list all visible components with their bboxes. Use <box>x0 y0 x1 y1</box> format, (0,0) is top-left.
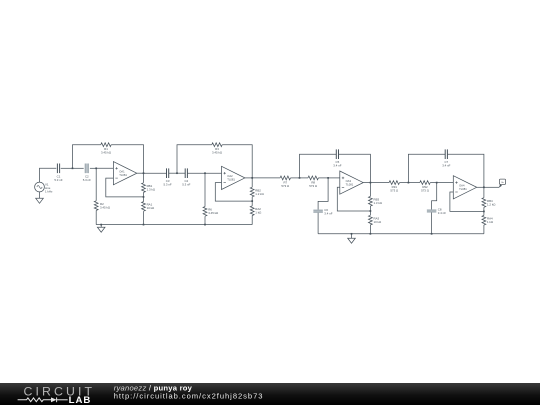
footer url line <box>114 392 264 401</box>
svg-text:3.45 kΩ: 3.45 kΩ <box>208 211 219 215</box>
wire node A up to R1 feedback <box>73 145 101 169</box>
wire R1 to OA1 output column <box>111 145 143 174</box>
svg-text:OA3: OA3 <box>346 179 352 183</box>
op-amp OA2 <box>222 166 245 189</box>
svg-text:1.2 kΩ: 1.2 kΩ <box>487 202 496 206</box>
resistor R3 <box>212 143 223 155</box>
wire RB2 to loop junction <box>251 197 253 201</box>
svg-text:1 kΩ: 1 kΩ <box>487 220 494 224</box>
wire column to RB4 <box>483 187 485 197</box>
wire node F to OA3 + input <box>328 177 340 179</box>
wire C4 to node D <box>187 172 205 174</box>
wire R3 to OA2 output column <box>222 145 252 178</box>
svg-text:3.4 nF: 3.4 nF <box>442 164 450 168</box>
svg-text:3.45 kΩ: 3.45 kΩ <box>212 151 223 155</box>
resistor R91 <box>389 181 399 193</box>
wire node F to C6 <box>318 178 328 210</box>
wire RA4 to ground rail <box>483 225 485 234</box>
wire node D to R6 <box>204 173 206 206</box>
resistor RA1 <box>142 202 155 212</box>
resistor RB3 <box>369 196 383 206</box>
wire OA3 output to column <box>363 182 370 184</box>
node G (junction R91-R92) <box>408 182 410 184</box>
wire OA4 output to flag Vo <box>484 186 499 188</box>
svg-text:5.3 nF: 5.3 nF <box>163 183 171 187</box>
wire C5 to OA3 output column <box>339 154 371 182</box>
svg-text:1 kΩ: 1 kΩ <box>255 211 262 215</box>
node B (junction C2-R2) <box>95 167 97 169</box>
wire OA3 output to R9 <box>370 182 389 184</box>
wire column to RB3 <box>369 183 371 197</box>
node rail-ground junction (right) <box>351 233 353 235</box>
node RB4-RA4 junction <box>483 211 485 213</box>
wire OA1 output to C3 <box>144 172 167 174</box>
ground (right rail) <box>348 234 356 243</box>
node rail-RA1 junction <box>143 224 145 226</box>
capacitor C1 <box>54 164 62 182</box>
wire RB4 to loop junction <box>483 207 485 211</box>
svg-text:3.4 nF: 3.4 nF <box>333 164 341 168</box>
wire node C up to R3 feedback <box>177 145 212 174</box>
wire node G to R92 <box>408 182 419 184</box>
capacitor C6 <box>313 208 332 216</box>
svg-text:TL081: TL081 <box>227 178 235 182</box>
wire column to RB2 <box>251 178 253 187</box>
capacitor C8 <box>427 208 446 216</box>
logo diode <box>51 397 68 402</box>
wire C6 to ground rail <box>317 213 319 234</box>
wire RA1 to ground rail <box>143 211 145 224</box>
wire node E up to C5 feedback <box>300 154 337 178</box>
wire C2 to node B <box>90 167 96 169</box>
wire R91 to node G <box>400 182 409 184</box>
node flag Vo <box>499 179 505 184</box>
wire C3 to node C <box>169 172 177 174</box>
wire R6 to ground rail <box>204 216 206 224</box>
resistor RB1 <box>142 183 156 193</box>
wire V1 to C1 <box>40 168 57 182</box>
svg-text:5.3 nF: 5.3 nF <box>83 178 91 182</box>
resistor RA3 <box>369 215 382 225</box>
node C (junction C3-C4) <box>176 172 178 174</box>
wire C8 to ground rail <box>431 213 433 234</box>
node rail-ground junction <box>100 224 102 226</box>
svg-text:3.45 kΩ: 3.45 kΩ <box>100 205 111 209</box>
svg-text:TL081: TL081 <box>119 173 127 177</box>
wire RA3 to ground rail <box>369 225 371 234</box>
wire RB3 to loop junction <box>369 206 371 211</box>
wire OA4 - input loop <box>450 192 484 211</box>
resistor R7 <box>280 176 290 188</box>
wire OA2 - input loop <box>215 183 252 202</box>
node OA3 output <box>370 182 372 184</box>
wire node D to OA2 + input <box>205 172 222 174</box>
svg-text:1.3 kΩ: 1.3 kΩ <box>374 201 383 205</box>
wire C1 to node A <box>61 167 73 169</box>
resistor R92 <box>420 181 430 193</box>
wire R2 to ground rail <box>95 210 97 224</box>
svg-text:3.4 nF: 3.4 nF <box>324 211 332 215</box>
wire OA1 - input loop <box>106 178 144 197</box>
wire OA2 output to R7 <box>252 177 280 179</box>
ground (below V1) <box>36 192 44 203</box>
flag anchor wedge <box>499 184 502 188</box>
resistor RB2 <box>250 187 264 197</box>
svg-text:http://circuitlab.com/cx2fuhj8: http://circuitlab.com/cx2fuhj82sb73 <box>114 392 264 401</box>
node RB3-RA3 junction <box>370 210 372 212</box>
wire junction to RA3 <box>369 211 371 215</box>
wire C7 to OA4 output column <box>447 154 484 187</box>
wire node E to R8 <box>300 177 309 179</box>
node F (junction R8-C6) <box>327 177 329 179</box>
wire R92 to node H <box>430 182 437 184</box>
node OA4 output <box>483 186 485 188</box>
wire RB1 to loop junction <box>143 192 145 197</box>
svg-text:3.4 nF: 3.4 nF <box>438 211 446 215</box>
resistor RA2 <box>250 206 262 216</box>
svg-text:573 Ω: 573 Ω <box>390 189 399 193</box>
op-amp OA4 <box>453 176 476 199</box>
op-amp OA3 <box>340 171 363 194</box>
node OA2 output <box>251 177 253 179</box>
wire OA4 output to column <box>477 186 484 188</box>
wire OA3 - input loop <box>337 187 370 211</box>
node rail-RA3 junction <box>370 233 372 235</box>
capacitor C5 <box>333 149 341 167</box>
footer author line <box>114 383 193 392</box>
capacitor C3 <box>163 168 171 186</box>
resistor R8 <box>308 176 318 188</box>
node D (junction C4-R6) <box>204 172 206 174</box>
wire node H to C8 <box>432 183 437 210</box>
logo LAB <box>69 395 92 405</box>
node rail-C8 junction <box>431 233 433 235</box>
logo squiggle resistor <box>18 398 51 402</box>
resistor RB4 <box>482 198 496 208</box>
svg-text:5.3 nF: 5.3 nF <box>182 183 190 187</box>
node H (junction R92-C8) <box>436 182 438 184</box>
wire node C to C4 <box>177 172 185 174</box>
capacitor C4 <box>182 168 190 186</box>
node RB2-RA2 junction <box>251 200 253 202</box>
node A (junction C1-C2) <box>72 167 74 169</box>
svg-text:10 kΩ: 10 kΩ <box>374 220 382 224</box>
resistor R1 <box>101 143 112 155</box>
svg-text:OA2: OA2 <box>227 174 233 178</box>
svg-text:OA1: OA1 <box>119 170 125 174</box>
svg-text:1.3 kΩ: 1.3 kΩ <box>147 187 156 191</box>
footer bar <box>0 383 540 405</box>
svg-text:573 Ω: 573 Ω <box>421 189 430 193</box>
wire R8 to node F <box>318 177 328 179</box>
node RB1-RA1 junction <box>143 196 145 198</box>
svg-text:573 Ω: 573 Ω <box>309 184 318 188</box>
capacitor C2 <box>83 164 91 182</box>
node E (junction R7-R8) <box>299 177 301 179</box>
resistor R2 <box>94 201 111 211</box>
svg-text:573 Ω: 573 Ω <box>281 184 290 188</box>
resistor R6 <box>203 207 219 217</box>
svg-text:10 kΩ: 10 kΩ <box>147 206 155 210</box>
svg-text:3.45 kΩ: 3.45 kΩ <box>101 151 112 155</box>
wire OA1 output to column <box>137 172 144 174</box>
ground rail (left) <box>96 224 252 226</box>
ground rail (right) <box>318 233 484 235</box>
svg-text:1.2 kΩ: 1.2 kΩ <box>255 192 264 196</box>
wire junction to RA2 <box>251 201 253 206</box>
svg-text:OA4: OA4 <box>459 184 465 188</box>
ground (left rail) <box>97 225 105 233</box>
svg-text:TL081: TL081 <box>346 182 354 186</box>
wire node H to OA4 + input <box>437 182 454 184</box>
wire node B to OA1 + input <box>96 167 113 169</box>
wire column to RB1 <box>143 173 145 183</box>
wire RA2 to ground rail <box>251 216 253 225</box>
wire junction to RA1 <box>143 197 145 202</box>
node rail-R6 junction <box>204 224 206 226</box>
wire node A to C2 <box>73 167 84 169</box>
op-amp OA1 <box>113 162 136 185</box>
svg-text:LAB: LAB <box>69 395 92 405</box>
wire node G up to C7 feedback <box>408 154 445 182</box>
node OA1 output <box>143 172 145 174</box>
wire junction to RA4 <box>483 211 485 215</box>
logo CIRCUIT <box>24 384 96 398</box>
wire node B to R2 <box>95 168 97 201</box>
capacitor C7 <box>442 149 450 167</box>
svg-text:TL081: TL081 <box>459 187 467 191</box>
resistor RA4 <box>482 215 494 225</box>
wire OA2 output to column <box>245 177 252 179</box>
wire R7 to node E <box>291 177 300 179</box>
svg-text:5.3 nF: 5.3 nF <box>54 178 62 182</box>
voltage source V1 <box>35 182 53 193</box>
svg-text:1 kHz: 1 kHz <box>45 190 53 194</box>
